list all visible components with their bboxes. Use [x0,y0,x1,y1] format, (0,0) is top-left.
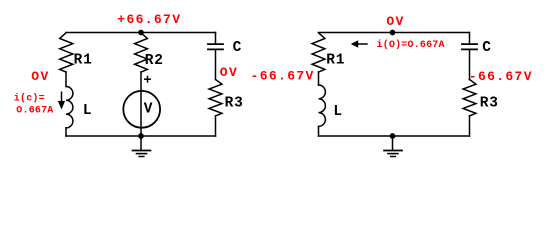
svg-text:R1: R1 [74,52,93,68]
svg-text:+66.67V: +66.67V [117,12,181,27]
inductor L [66,87,73,128]
svg-text:i(O)=O.667A: i(O)=O.667A [377,39,445,51]
wire: cap bottom to R3 top [215,49,217,79]
svg-text:OV: OV [220,65,238,80]
svg-text:L: L [83,103,93,119]
wire: R3 bottom to corner (right) [469,116,471,136]
wire: cap bottom to R3 top (right) [469,49,471,79]
svg-text:R3: R3 [225,95,244,111]
wire: top horizontal node (+66.67V net) [66,32,216,34]
resistor R3 [209,80,222,116]
wire: inductor bottom to corner [318,126,320,136]
wire: bottom horizontal [319,135,470,137]
node dot: top junction (R2 / +66.67V probe) [138,30,144,36]
svg-text:O.667A: O.667A [16,106,53,117]
svg-text:V: V [144,102,154,118]
voltage source V circle [123,91,160,128]
current arrow i(0) (left) [356,43,368,45]
resistor R3 (right) [463,80,476,116]
plus sign of source V [144,76,151,83]
node dot: bottom junction (ground, right) [390,133,396,139]
svg-text:R2: R2 [145,53,164,69]
wire: bottom horizontal [66,135,216,137]
wire: top horizontal node (0V net) [319,32,470,34]
wire: inductor bottom to bottom-left corner [65,128,67,136]
svg-text:-66.67V: -66.67V [469,69,533,84]
wire: cap top stub [215,33,217,45]
svg-text:L: L [333,104,343,120]
svg-text:R1: R1 [326,53,345,69]
ground (left circuit) [140,136,142,150]
svg-text:C: C [233,40,243,56]
wire: R1 bottom to inductor top [65,72,67,87]
svg-text:OV: OV [31,69,49,84]
svg-text:OV: OV [386,14,404,29]
resistor R1 [60,33,73,72]
svg-text:C: C [482,40,492,56]
current arrow i(c) (down) [61,92,63,104]
ground (right circuit) [392,136,394,150]
node dot: top junction (0V probe, right) [390,30,396,36]
wire: R3 bottom to bottom-right corner [215,116,217,136]
wire: R2 bottom through source to bottom node [140,72,142,136]
wire: cap top stub (right) [469,33,471,45]
wire: R1 bottom to inductor top [318,72,320,85]
svg-text:-66.67V: -66.67V [251,69,315,84]
node dot: bottom junction (ground) [138,133,144,139]
svg-text:R3: R3 [480,96,499,112]
resistor R2 [135,33,148,72]
svg-text:i(c)=: i(c)= [14,93,45,105]
capacitor C plates [208,43,223,45]
inductor L (right) [319,85,326,126]
resistor R1 (right) [312,33,325,72]
capacitor C plates (right) [462,43,477,45]
